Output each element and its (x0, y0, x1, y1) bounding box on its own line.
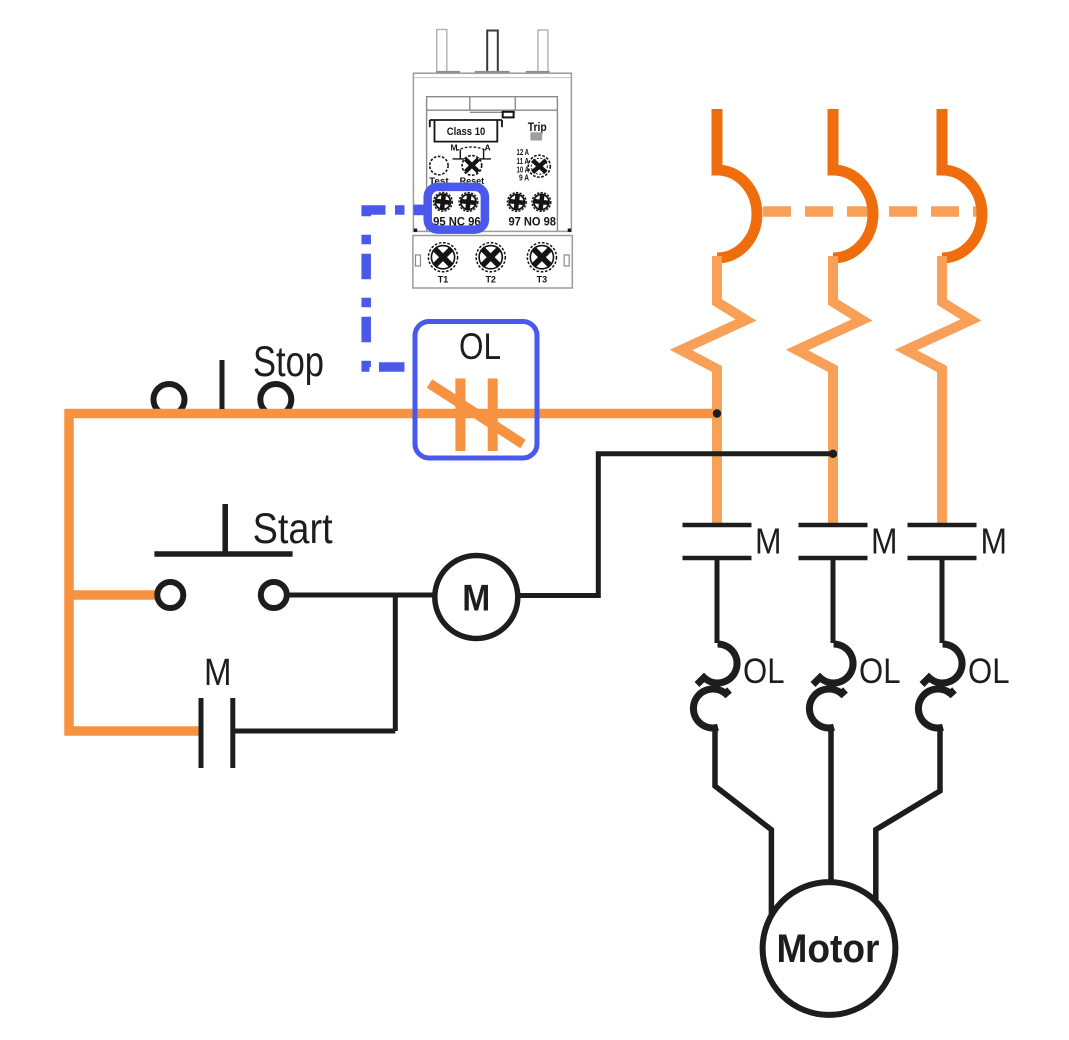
svg-text:M: M (755, 521, 782, 562)
overload relay device U1 (photo-style drawing) (413, 30, 572, 289)
T2 screw (476, 243, 505, 272)
svg-text:OL: OL (459, 326, 501, 367)
phase L2 thermal zigzag + wire down to contact (797, 256, 862, 523)
svg-text:OL: OL (743, 652, 785, 691)
wire OL2 to motor (828, 727, 834, 892)
relay terminal prong right (538, 30, 548, 73)
OL contact bar 2 (orange) (488, 379, 498, 452)
highlight box around 95 NC 96 terminals (428, 187, 485, 230)
wire contact3 to OL heater 3 (940, 558, 945, 643)
wire seal-in branch vertical (393, 595, 398, 731)
svg-text:Start: Start (253, 505, 333, 553)
breaker tie bar (dash) (763, 206, 986, 217)
relay upper body (413, 73, 571, 231)
phase L1 thermal zigzag + wire down to contact (681, 256, 746, 523)
T3 screw (527, 243, 556, 272)
prong base pads (436, 71, 460, 75)
orange stub to start button (69, 590, 155, 600)
start button contact circle right (261, 582, 287, 608)
side notch left (416, 255, 421, 266)
relay terminal prong middle (487, 31, 498, 74)
svg-text:A: A (485, 143, 491, 153)
corner marks upper body bottom (414, 229, 417, 232)
OL contact NC slash (orange) (430, 384, 524, 445)
OL contact bar 1 (orange) (455, 379, 465, 452)
svg-text:M: M (451, 143, 458, 153)
stop button contact circle right (260, 384, 291, 415)
M-A adjustment arc (457, 147, 487, 151)
small window rectangle (503, 112, 514, 118)
T1 screw (428, 243, 457, 272)
phase L3 thermal zigzag + wire down to contact (906, 256, 971, 523)
start button contact circle left (157, 582, 183, 608)
svg-text:OL: OL (968, 652, 1010, 691)
M power contact 3 plates (908, 525, 977, 558)
coil M circle (435, 556, 518, 639)
svg-text:M: M (462, 578, 490, 619)
svg-text:OL: OL (859, 652, 901, 691)
svg-text:T2: T2 (485, 275, 496, 285)
wire OL3 to motor (876, 727, 940, 915)
terminal screw 98 (532, 193, 551, 212)
svg-text:T1: T1 (438, 275, 449, 285)
svg-text:Class 10: Class 10 (447, 126, 486, 138)
phase L3 breaker top (dark) (942, 109, 982, 258)
M auxiliary contact plate right (230, 698, 235, 768)
terminal screw 96 (459, 193, 478, 212)
blue dash-dot callout wire from terminal 95/96 to OL contact (366, 210, 414, 367)
motor circle (763, 882, 896, 1015)
dial bracket (453, 150, 492, 159)
svg-text:Stop: Stop (253, 338, 324, 386)
stop button plunger (220, 360, 225, 409)
wire contact1 to OL heater 1 (715, 558, 720, 643)
junction dot at L1 / control rail (713, 409, 721, 417)
svg-text:97 NO 98: 97 NO 98 (508, 215, 556, 229)
svg-text:M: M (871, 521, 898, 562)
svg-text:M: M (204, 652, 232, 694)
wire contact2 to OL heater 2 (831, 558, 836, 643)
orange control rail: top run, left drop, bottom run (69, 414, 717, 732)
wire seal-in bottom run (233, 729, 395, 734)
wire coil to phase L2: right, up, across (519, 454, 834, 596)
Test button (430, 156, 448, 174)
OL heater 1 hooks (693, 644, 737, 728)
amp scale labels (517, 147, 530, 183)
Class 10 label box (430, 120, 502, 142)
wire OL1 to motor (715, 727, 771, 925)
M auxiliary contact plate left (199, 698, 204, 768)
Reset dial (462, 156, 482, 176)
OL contact blue box (415, 322, 537, 459)
phase L2 breaker top (dark) (833, 109, 873, 258)
svg-text:9 A: 9 A (519, 173, 529, 183)
terminal screw 97 (507, 193, 526, 212)
junction dot at L2 / coil return (829, 450, 837, 458)
relay lower terminal block (413, 236, 572, 289)
M power contact 1 plates (683, 525, 752, 558)
OL heater 2 hooks (809, 644, 853, 728)
OL heater 3 hooks (918, 644, 962, 728)
Trip indicator (gray) (530, 132, 542, 140)
svg-text:M: M (981, 521, 1008, 562)
start button plunger (222, 504, 228, 554)
svg-text:Motor: Motor (777, 927, 880, 971)
relay face panel (427, 97, 558, 231)
svg-text:Trip: Trip (528, 120, 547, 134)
svg-text:T3: T3 (537, 275, 548, 285)
FLA dial (528, 155, 550, 177)
side notch right (564, 255, 569, 266)
relay terminal prong left (437, 30, 447, 74)
phase L1 breaker top (dark) (717, 109, 757, 258)
highlight box left tab (414, 205, 429, 216)
wire start to coil M (288, 593, 435, 598)
stop button contact circle left (154, 384, 185, 415)
terminal screw 95 (434, 192, 453, 211)
start button actuator bar (154, 551, 292, 557)
M power contact 2 plates (799, 525, 868, 558)
